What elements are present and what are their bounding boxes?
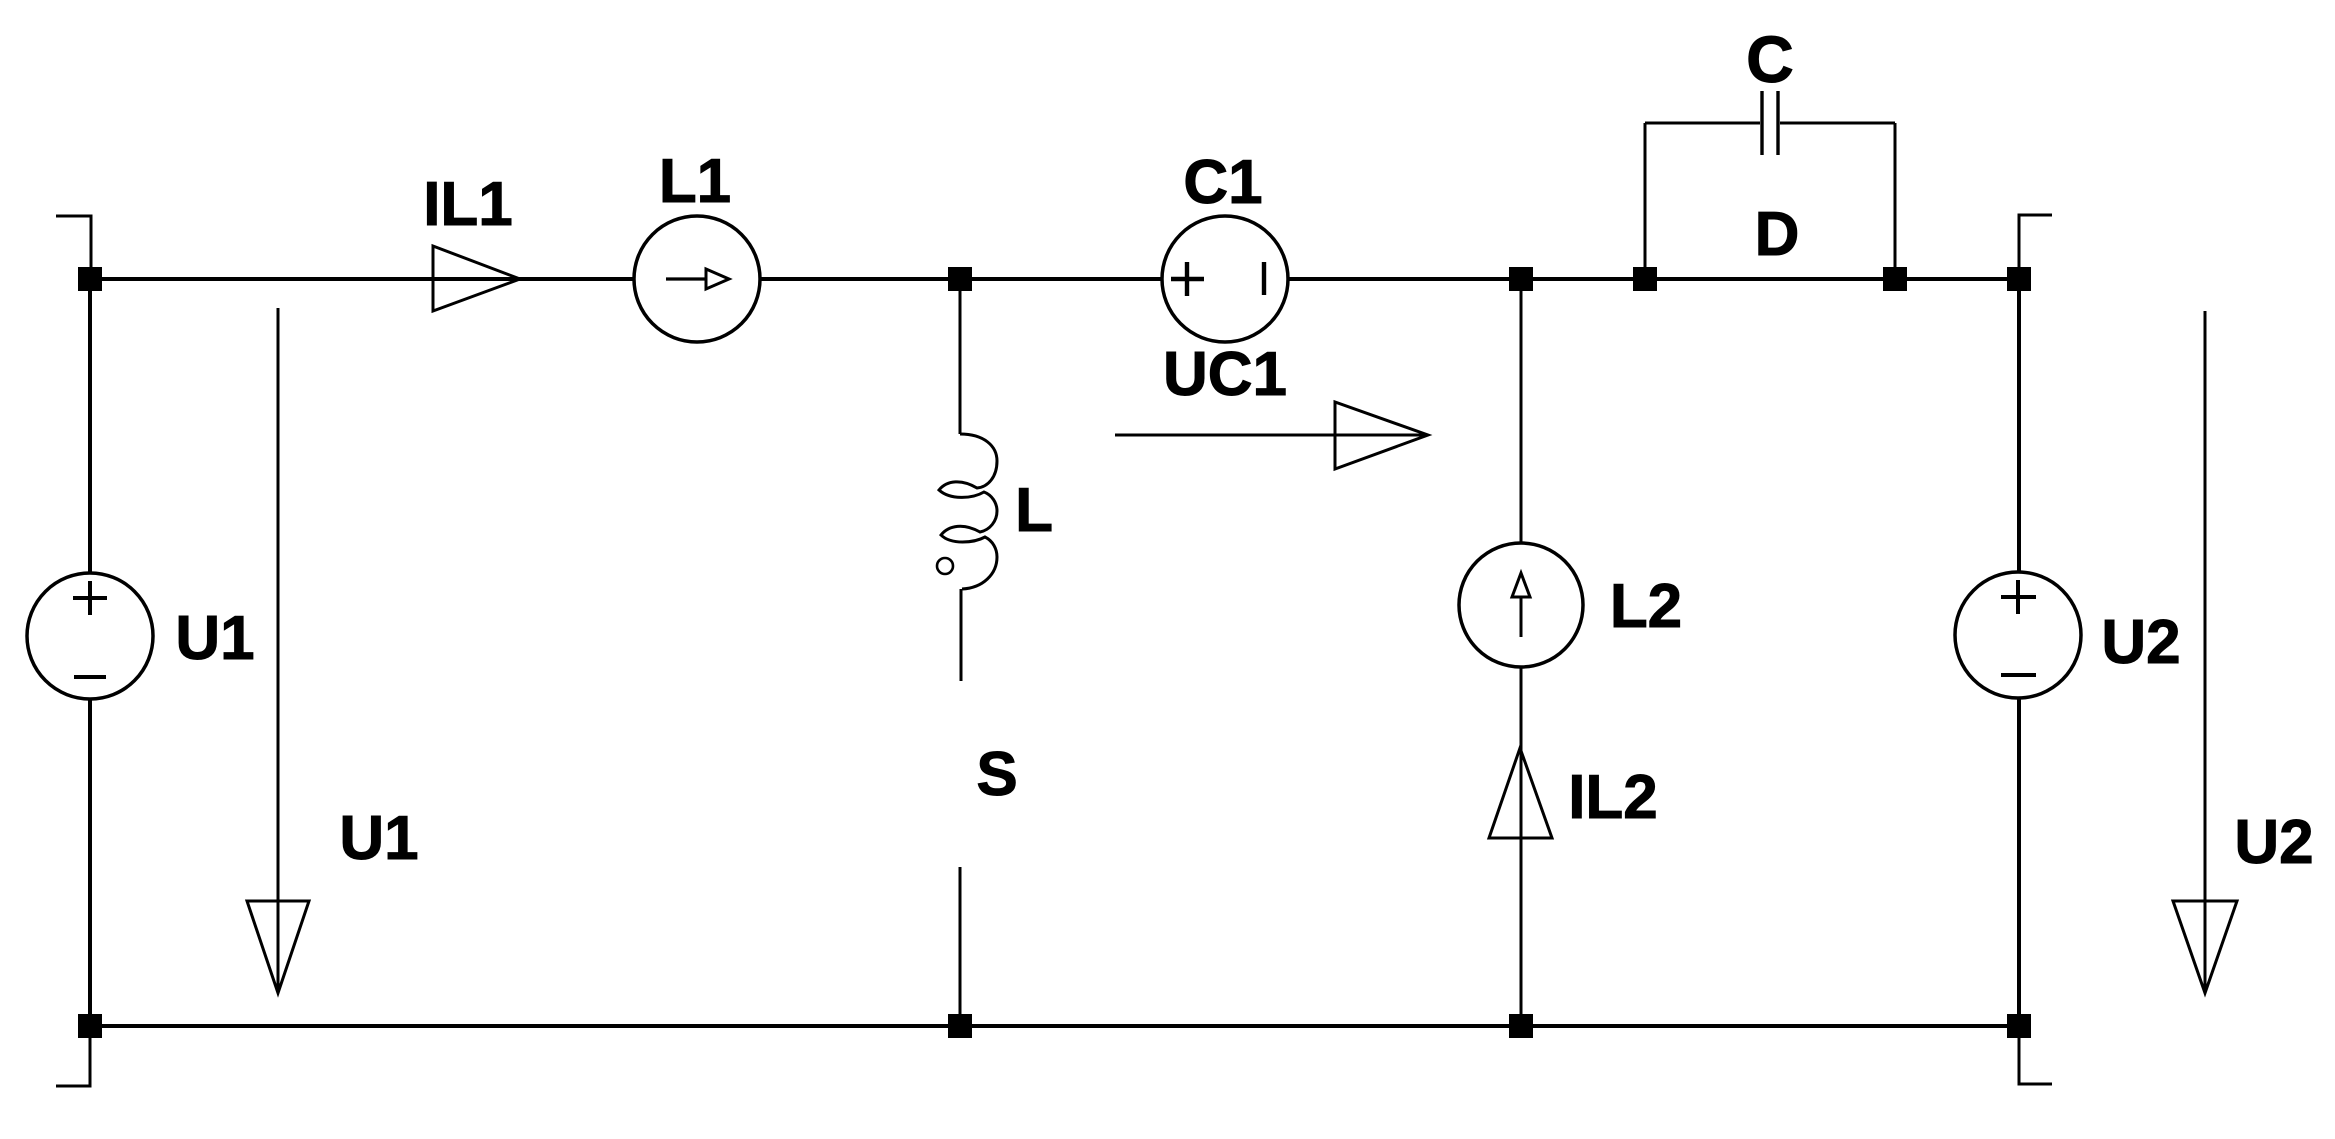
svg-text:U2: U2 [2234,808,2313,877]
svg-text:UC1: UC1 [1163,340,1287,409]
svg-text:U1: U1 [339,804,418,873]
svg-text:L: L [1015,476,1053,545]
svg-text:D: D [1755,200,1800,269]
svg-text:IL1: IL1 [423,170,513,239]
svg-text:U2: U2 [2101,608,2180,677]
svg-text:IL2: IL2 [1568,763,1658,832]
svg-text:C1: C1 [1183,148,1262,217]
svg-text:U1: U1 [175,604,254,673]
svg-text:L1: L1 [659,147,731,216]
svg-text:L2: L2 [1610,572,1682,641]
svg-text:S: S [976,740,1017,809]
svg-text:C: C [1746,22,1794,96]
